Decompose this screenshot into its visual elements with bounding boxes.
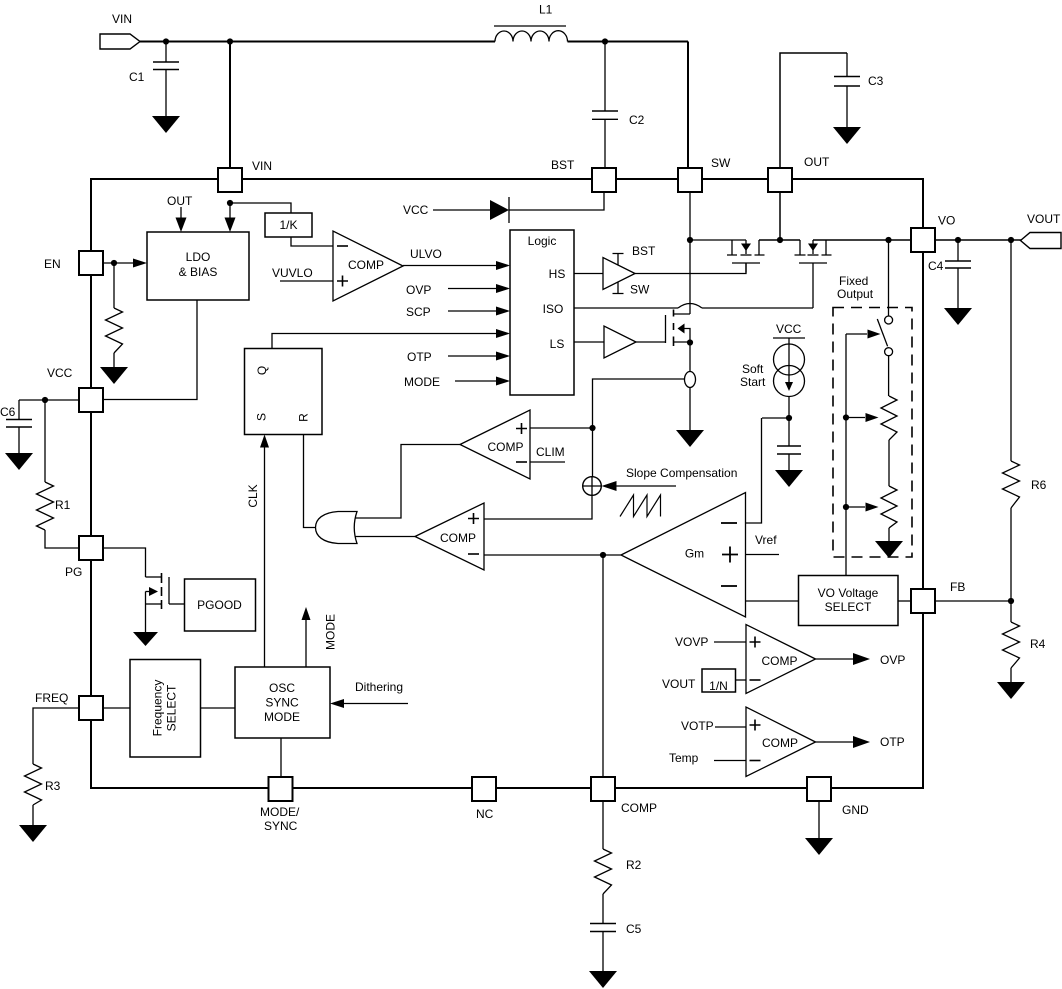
svg-text:C4: C4 [928, 259, 944, 273]
sawtooth symbol [620, 495, 661, 517]
svg-text:VOUT: VOUT [1027, 212, 1061, 226]
svg-text:VO: VO [938, 214, 955, 228]
wire Temp input [669, 751, 747, 765]
wire switch select arrow [846, 330, 881, 339]
svg-text:Dithering: Dithering [355, 680, 403, 694]
svg-text:Start: Start [740, 375, 766, 389]
gate G1 (OR) [316, 512, 358, 544]
wire OVP to Logic [406, 283, 510, 297]
capacitor C2 [592, 42, 645, 169]
ground R4 [997, 682, 1025, 699]
wire VCC pin left [19, 399, 79, 401]
pin FREQ [35, 691, 103, 720]
node fixed-output tap [885, 237, 891, 243]
block LDO & BIAS [147, 232, 249, 300]
svg-text:R1: R1 [55, 498, 71, 512]
node soft-start [786, 415, 792, 421]
svg-text:Slope Compensation: Slope Compensation [626, 466, 737, 480]
wire OTP output [816, 735, 905, 749]
wire OUT pin drop [779, 192, 781, 241]
svg-text:OVP: OVP [406, 283, 431, 297]
svg-text:CLK: CLK [246, 484, 260, 507]
wire EN input [104, 259, 148, 268]
svg-text:VUVLO: VUVLO [272, 266, 313, 280]
source I1 (Soft Start) [740, 322, 805, 397]
pin EN [44, 251, 103, 275]
svg-text:COMP: COMP [762, 736, 798, 750]
resistor R2 [595, 801, 642, 924]
wire FB net [935, 600, 1011, 602]
wire Q2 to VO pin [813, 239, 911, 241]
block 1/N divider [662, 669, 736, 693]
output tag VOUT [1021, 212, 1062, 249]
wire current sense to CLIM [593, 379, 685, 478]
latch U5 (SR) [245, 349, 323, 435]
svg-text:ISO: ISO [543, 302, 564, 316]
input tag VIN [100, 12, 140, 49]
wire VO to VOUT [935, 239, 1022, 241]
svg-text:VOVP: VOVP [675, 635, 708, 649]
svg-text:OSC: OSC [269, 681, 295, 695]
node VIN pin tap [227, 38, 233, 44]
svg-text:1/N: 1/N [709, 679, 728, 693]
wire FREQ to FreqSel [104, 707, 131, 709]
wire PWM out to OR [353, 536, 415, 538]
wire VIN sense to 1/K [230, 203, 291, 213]
pin COMP [591, 777, 657, 815]
svg-text:R6: R6 [1031, 478, 1047, 492]
block Frequency SELECT [130, 660, 201, 758]
resistor RP1 (divider) [881, 356, 897, 440]
svg-text:Output: Output [837, 287, 874, 301]
svg-text:FB: FB [950, 580, 965, 594]
wire CLIM out to OR [352, 445, 460, 519]
resistor R3 [25, 764, 61, 825]
resistor RP2 (divider) [881, 440, 897, 541]
comparator U6 (CLIM) [460, 410, 530, 479]
pin BST [551, 158, 616, 192]
svg-text:CLIM: CLIM [536, 445, 565, 459]
node C1 tap [163, 38, 169, 44]
svg-text:VIN: VIN [112, 12, 132, 26]
wire OR to R input [304, 435, 316, 528]
ground C6 [5, 453, 33, 470]
wire soft-start tap [762, 417, 789, 419]
svg-text:PG: PG [65, 565, 82, 579]
transistor Q2 (isolation FET) [795, 240, 832, 308]
switch SW1 [877, 316, 892, 356]
wire VOTP input [681, 719, 746, 733]
wire VOVP input [675, 635, 746, 649]
svg-text:MODE/: MODE/ [260, 805, 300, 819]
wire pot1 select arrow [846, 413, 879, 422]
svg-text:Gm: Gm [685, 547, 704, 561]
svg-text:Fixed: Fixed [839, 274, 868, 288]
svg-text:LS: LS [550, 337, 565, 351]
ground C3 [833, 127, 861, 144]
svg-text:FREQ: FREQ [35, 691, 68, 705]
wire Q2 left rail [780, 239, 800, 241]
block U1 Logic [510, 230, 574, 395]
node VIN sense [227, 200, 233, 206]
resistor R-EN [106, 263, 123, 367]
svg-text:HS: HS [549, 267, 566, 281]
resistor R6 [1003, 240, 1047, 601]
svg-text:OVP: OVP [880, 653, 905, 667]
wire CLIM plus input [530, 427, 593, 429]
svg-text:OTP: OTP [407, 350, 432, 364]
svg-text:Soft: Soft [742, 362, 764, 376]
buffer U3 (HS driver) [603, 244, 656, 297]
capacitor C4 [928, 240, 971, 308]
svg-text:R: R [297, 413, 311, 422]
wire PWM minus input [484, 554, 621, 556]
diode D1 (BST supply) [403, 192, 604, 224]
svg-text:VOTP: VOTP [681, 719, 714, 733]
svg-text:R2: R2 [626, 858, 642, 872]
pin FB [911, 580, 965, 613]
svg-text:Temp: Temp [669, 751, 699, 765]
svg-text:COMP: COMP [762, 654, 798, 668]
svg-text:C5: C5 [626, 922, 642, 936]
wire select to FB pin [898, 600, 911, 602]
node select tap 1 [843, 414, 849, 420]
pin SW [678, 156, 731, 192]
pin VIN [218, 159, 272, 192]
wire soft-start to Gm [746, 418, 762, 523]
svg-text:COMP: COMP [488, 440, 524, 454]
wire MODE to Logic [404, 375, 510, 389]
wire SCP to Logic [406, 305, 510, 319]
pin PG [65, 536, 103, 579]
wire Q1 drain to OUT [759, 239, 780, 241]
svg-text:EN: EN [44, 257, 61, 271]
wire OUT arrow to LDO [167, 194, 193, 232]
current sense CS1 [685, 343, 696, 431]
svg-text:SELECT: SELECT [825, 600, 872, 614]
pin OUT [768, 155, 830, 192]
wire VIN pin drop [229, 42, 231, 169]
svg-text:MODE: MODE [264, 710, 300, 724]
wire OSC to MODE/SYNC pin [280, 738, 282, 777]
ground Q3 [676, 430, 704, 447]
comparator U10 (OTP) [746, 707, 816, 777]
node Q3 source [687, 339, 693, 345]
wire MODE up arrow [302, 607, 338, 667]
wire COMP net drop [602, 555, 604, 777]
transistor Q3 (low-side FET) [666, 240, 691, 346]
pin NC [472, 777, 496, 821]
svg-text:VO Voltage: VO Voltage [818, 586, 879, 600]
svg-text:C6: C6 [0, 405, 16, 419]
block 1/K divider [265, 213, 312, 237]
svg-text:VCC: VCC [776, 322, 802, 336]
wire OVP output [816, 653, 906, 667]
pin VO [911, 214, 955, 253]
node select tap 2 [843, 504, 849, 510]
svg-text:C2: C2 [629, 113, 645, 127]
capacitor C-SS [777, 446, 801, 470]
wire SW internal drop [689, 192, 691, 241]
node EN [111, 260, 117, 266]
node SW-LS junction [687, 237, 693, 243]
svg-text:NC: NC [476, 807, 494, 821]
pin GND [807, 777, 869, 817]
svg-text:OUT: OUT [167, 194, 193, 208]
svg-text:VCC: VCC [403, 203, 429, 217]
svg-text:COMP: COMP [348, 258, 384, 272]
wire soft-start node [788, 397, 790, 447]
svg-text:BST: BST [632, 244, 656, 258]
node R6 tap [1008, 237, 1014, 243]
wire FREQ input [33, 708, 79, 764]
block PGOOD [185, 579, 256, 631]
IC boundary [91, 179, 923, 788]
comparator U7 (PWM) [415, 503, 484, 570]
pin MODE/SYNC [260, 777, 300, 833]
svg-text:Logic: Logic [528, 234, 557, 248]
wire CLIM reference [530, 445, 565, 462]
svg-text:LDO: LDO [186, 250, 211, 264]
block OSC SYNC MODE [235, 667, 330, 738]
svg-text:MODE: MODE [324, 614, 338, 650]
wire summer to PWM comp [484, 495, 592, 520]
svg-text:OUT: OUT [804, 155, 830, 169]
block VO Voltage SELECT [799, 576, 899, 626]
svg-text:SYNC: SYNC [264, 819, 298, 833]
node FB-R4 junction [1008, 598, 1014, 604]
svg-text:Frequency: Frequency [151, 680, 165, 737]
ground Q4 [133, 632, 158, 646]
ground divider [875, 541, 903, 558]
wire FreqSel to OSC [201, 707, 236, 709]
wire 1/K to comparator [291, 237, 333, 246]
fixed output dashed box [833, 274, 912, 557]
pin VCC [47, 366, 103, 412]
wire CLK to latch [246, 435, 269, 668]
wire VIN arrow to LDO [225, 203, 236, 232]
resistor R4 [1003, 601, 1046, 682]
comparator U9 (OVP) [746, 625, 816, 694]
ground C-SS [775, 470, 803, 487]
amplifier U8 (Gm) [621, 493, 746, 618]
wire Gm FB input [746, 600, 799, 602]
wire Vref input [746, 533, 780, 555]
wire OTP to Logic [407, 350, 510, 364]
resistor R1 [37, 400, 79, 548]
svg-text:VIN: VIN [252, 159, 272, 173]
wire 1/N to OVP comp [736, 679, 747, 681]
transistor Q4 (PGOOD FET) [146, 573, 185, 632]
capacitor C6 [0, 400, 32, 453]
ground R-EN [100, 367, 128, 384]
wire ISO gate drive [574, 304, 813, 309]
wire Q to Logic [272, 329, 510, 349]
wire slope compensation input [602, 466, 738, 491]
capacitor C5 [590, 922, 642, 971]
wire VIN top rail [140, 41, 688, 43]
wire PG net [104, 548, 146, 577]
summer X1 (slope add) [583, 477, 602, 496]
wire HS gate drive [574, 263, 746, 274]
svg-text:OTP: OTP [880, 735, 905, 749]
wire ULVO to Logic [403, 247, 510, 270]
capacitor C3 [834, 53, 884, 127]
wire OUT to C3 [780, 53, 847, 168]
ground GND pin [805, 801, 833, 855]
wire SW drop [687, 42, 689, 169]
node OUT-Q2 junction [777, 237, 783, 243]
wire pot2 select arrow [846, 503, 879, 512]
node VCC-R1 [42, 397, 48, 403]
capacitor C1 [129, 42, 179, 117]
svg-text:SW: SW [630, 283, 650, 297]
wire VO to switch [888, 240, 890, 316]
wire LDO to VCC pin [104, 300, 198, 400]
inductor L1 [494, 3, 568, 42]
svg-text:VOUT: VOUT [662, 677, 696, 691]
wire LS gate drive [574, 341, 666, 343]
ground R3 [19, 825, 47, 842]
node COMP net [600, 552, 606, 558]
svg-text:MODE: MODE [404, 375, 440, 389]
svg-text:Q: Q [255, 366, 269, 375]
svg-text:C3: C3 [868, 74, 884, 88]
svg-text:PGOOD: PGOOD [197, 598, 242, 612]
svg-text:ULVO: ULVO [410, 247, 442, 261]
svg-text:SELECT: SELECT [165, 684, 179, 731]
svg-text:BST: BST [551, 158, 575, 172]
svg-text:COMP: COMP [621, 801, 657, 815]
ground C1 [152, 116, 180, 133]
svg-text:& BIAS: & BIAS [179, 265, 218, 279]
node L1 out [602, 38, 608, 44]
comparator U2 (UVLO) [333, 231, 403, 301]
svg-text:SYNC: SYNC [265, 696, 299, 710]
svg-text:R4: R4 [1030, 637, 1046, 651]
svg-text:R3: R3 [45, 779, 61, 793]
svg-text:1/K: 1/K [279, 218, 297, 232]
svg-text:C1: C1 [129, 70, 145, 84]
ground C5 [589, 971, 617, 988]
wire select rail [845, 334, 847, 576]
svg-text:VCC: VCC [47, 366, 73, 380]
svg-text:GND: GND [842, 803, 869, 817]
wire VUVLO input [272, 266, 333, 281]
wire SW rail to Q1 [690, 239, 746, 241]
svg-text:COMP: COMP [440, 531, 476, 545]
buffer U4 (LS driver) [604, 326, 636, 358]
svg-text:SCP: SCP [406, 305, 431, 319]
svg-text:S: S [255, 413, 269, 421]
ground C4 [944, 308, 972, 325]
svg-text:L1: L1 [539, 3, 553, 17]
node CLIM junction [589, 425, 595, 431]
svg-text:Vref: Vref [755, 533, 777, 547]
svg-text:SW: SW [711, 156, 731, 170]
wire Dithering input [330, 680, 408, 708]
node C4 tap [955, 237, 961, 243]
transistor Q1 (high-side FET) [727, 240, 765, 273]
